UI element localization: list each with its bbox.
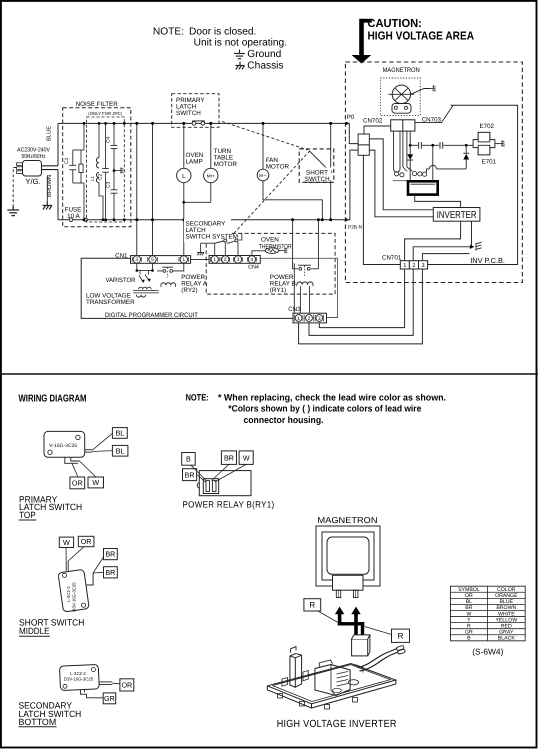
svg-text:Door is closed.: Door is closed. bbox=[189, 26, 256, 37]
svg-text:C1: C1 bbox=[64, 157, 70, 164]
svg-text:C2: C2 bbox=[98, 173, 104, 180]
svg-text:BL: BL bbox=[115, 429, 124, 438]
svg-text:2: 2 bbox=[412, 263, 415, 269]
svg-text:BR: BR bbox=[105, 568, 115, 577]
svg-text:(RY1): (RY1) bbox=[270, 287, 286, 294]
svg-text:3: 3 bbox=[318, 316, 321, 322]
svg-text:BR: BR bbox=[185, 470, 195, 479]
svg-text:Y/G.: Y/G. bbox=[25, 177, 40, 186]
svg-text:TOP: TOP bbox=[19, 510, 36, 520]
svg-text:MAGNETRON: MAGNETRON bbox=[318, 515, 378, 525]
svg-text:TRANSFORMER: TRANSFORMER bbox=[86, 299, 135, 306]
svg-text:3: 3 bbox=[135, 257, 138, 263]
svg-text:BLUE: BLUE bbox=[47, 126, 53, 141]
svg-text:OR: OR bbox=[121, 681, 132, 690]
svg-text:1: 1 bbox=[213, 257, 216, 263]
svg-text:HIGH VOLTAGE AREA: HIGH VOLTAGE AREA bbox=[368, 30, 475, 43]
svg-text:*Colors shown by ( ) indicate: *Colors shown by ( ) indicate colors of … bbox=[228, 403, 421, 413]
svg-text:1: 1 bbox=[182, 257, 185, 263]
svg-text:W: W bbox=[92, 478, 99, 487]
svg-text:BROWN: BROWN bbox=[46, 175, 53, 197]
svg-text:L-3C2-2: L-3C2-2 bbox=[70, 671, 86, 676]
svg-text:CAUTION:: CAUTION: bbox=[367, 17, 422, 30]
svg-text:5: 5 bbox=[151, 257, 154, 263]
svg-text:(RY2): (RY2) bbox=[181, 287, 197, 294]
svg-text:V-15G-3C25: V-15G-3C25 bbox=[49, 443, 77, 449]
svg-text:NOTE:: NOTE: bbox=[186, 392, 209, 402]
svg-text:LAMP: LAMP bbox=[186, 159, 203, 166]
svg-text:B: B bbox=[186, 454, 191, 463]
svg-text:P0: P0 bbox=[347, 114, 355, 121]
svg-text:connector housing.: connector housing. bbox=[244, 415, 324, 425]
svg-text:BR: BR bbox=[105, 550, 115, 559]
svg-text:Unit is not operating.: Unit is not operating. bbox=[194, 38, 287, 49]
svg-text:BOTTOM: BOTTOM bbox=[19, 717, 57, 727]
svg-text:Mᴛᴛ: Mᴛᴛ bbox=[207, 173, 216, 178]
svg-text:Chassis: Chassis bbox=[247, 60, 283, 71]
svg-text:2: 2 bbox=[224, 257, 227, 263]
svg-text:NOISE FILTER: NOISE FILTER bbox=[76, 101, 118, 108]
svg-text:(ONLY FOR ZPC): (ONLY FOR ZPC) bbox=[88, 111, 123, 116]
svg-text:1: 1 bbox=[297, 316, 300, 322]
svg-text:CN3: CN3 bbox=[288, 306, 301, 313]
svg-text:WIRING DIAGRAM: WIRING DIAGRAM bbox=[19, 394, 87, 405]
svg-text:Ground: Ground bbox=[247, 49, 281, 60]
svg-text:L1: L1 bbox=[90, 176, 95, 181]
svg-text:D3V-16G-3C25: D3V-16G-3C25 bbox=[72, 582, 77, 612]
svg-text:E702: E702 bbox=[480, 123, 495, 130]
svg-text:W: W bbox=[243, 453, 250, 462]
svg-text:D3V-16G-3C25: D3V-16G-3C25 bbox=[64, 677, 94, 682]
svg-text:3: 3 bbox=[237, 257, 240, 263]
svg-text:R: R bbox=[398, 631, 404, 640]
svg-text:INVERTER: INVERTER bbox=[437, 210, 477, 221]
svg-text:3: 3 bbox=[421, 263, 424, 269]
svg-text:50Hz/60Hz: 50Hz/60Hz bbox=[22, 153, 46, 160]
svg-text:CN4: CN4 bbox=[248, 264, 259, 270]
svg-text:2: 2 bbox=[308, 316, 311, 322]
svg-text:NOTE:: NOTE: bbox=[153, 26, 184, 37]
svg-text:E701: E701 bbox=[482, 159, 497, 166]
svg-text:DIGITAL PROGRAMMER CIRCUIT: DIGITAL PROGRAMMER CIRCUIT bbox=[105, 312, 198, 319]
svg-text:L-3C2-2: L-3C2-2 bbox=[66, 586, 71, 602]
svg-text:MAGNETRON: MAGNETRON bbox=[383, 67, 420, 74]
svg-text:OR: OR bbox=[81, 537, 92, 546]
svg-text:CN701: CN701 bbox=[382, 255, 402, 262]
svg-text:VARISTOR: VARISTOR bbox=[106, 277, 136, 284]
svg-text:* When replacing, check the le: * When replacing, check the lead wire co… bbox=[218, 392, 446, 402]
svg-text:POWER RELAY B(RY1): POWER RELAY B(RY1) bbox=[183, 500, 275, 510]
svg-text:C3: C3 bbox=[106, 181, 112, 188]
svg-text:W: W bbox=[63, 538, 70, 547]
svg-text:SWITCH SYSTEM: SWITCH SYSTEM bbox=[186, 233, 238, 240]
svg-text:MOTOR: MOTOR bbox=[214, 161, 238, 168]
svg-text:R: R bbox=[309, 600, 315, 609]
svg-text:INV P.C.B.: INV P.C.B. bbox=[470, 256, 505, 265]
svg-text:BL: BL bbox=[116, 446, 125, 455]
svg-text:GR: GR bbox=[104, 694, 115, 703]
svg-text:(S-6W4): (S-6W4) bbox=[472, 647, 503, 657]
svg-text:CN703: CN703 bbox=[422, 116, 442, 123]
svg-text:AC230V-240V: AC230V-240V bbox=[17, 146, 50, 153]
svg-text:4: 4 bbox=[251, 257, 254, 263]
svg-text:M∼: M∼ bbox=[259, 173, 267, 178]
svg-text:C4: C4 bbox=[106, 136, 112, 143]
svg-text:CN702: CN702 bbox=[363, 118, 383, 125]
svg-text:10 A: 10 A bbox=[67, 213, 80, 220]
svg-text:MOTOR: MOTOR bbox=[266, 164, 290, 171]
svg-text:B: B bbox=[467, 636, 471, 642]
svg-text:SWITCH: SWITCH bbox=[176, 110, 201, 117]
svg-text:BLACK: BLACK bbox=[498, 636, 516, 642]
svg-text:P2B-N: P2B-N bbox=[348, 224, 363, 230]
svg-text:OR: OR bbox=[72, 479, 83, 488]
svg-text:MIDDLE: MIDDLE bbox=[19, 626, 50, 636]
svg-text:1: 1 bbox=[403, 263, 406, 269]
svg-text:BR: BR bbox=[224, 453, 234, 462]
svg-text:HIGH VOLTAGE INVERTER: HIGH VOLTAGE INVERTER bbox=[277, 719, 397, 730]
